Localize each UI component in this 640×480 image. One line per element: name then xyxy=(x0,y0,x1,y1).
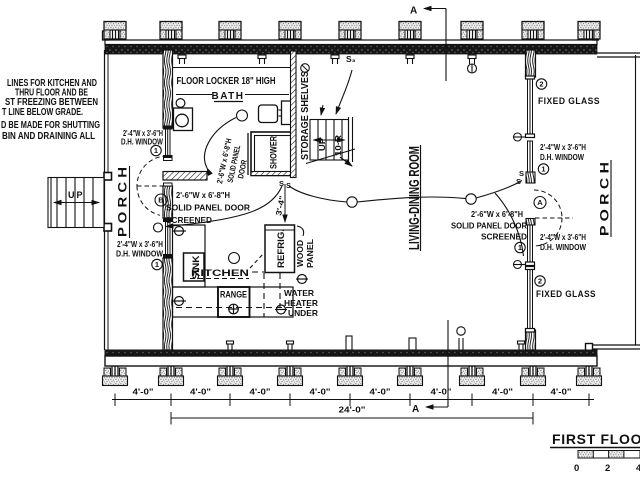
svg-text:SOLID PANEL DOOR: SOLID PANEL DOOR xyxy=(166,203,250,213)
svg-text:FLOOR LOCKER 18" HIGH: FLOOR LOCKER 18" HIGH xyxy=(177,76,276,87)
svg-text:2: 2 xyxy=(605,463,610,474)
svg-text:4: 4 xyxy=(636,463,640,474)
svg-text:D.H. WINDOW: D.H. WINDOW xyxy=(540,243,586,252)
svg-text:1: 1 xyxy=(154,146,158,155)
svg-text:A: A xyxy=(537,198,543,207)
svg-text:S: S xyxy=(516,177,521,186)
svg-text:A: A xyxy=(412,404,419,415)
svg-text:D.H. WINDOW: D.H. WINDOW xyxy=(540,153,584,162)
svg-text:10·R: 10·R xyxy=(333,135,343,156)
svg-text:SHOWER: SHOWER xyxy=(269,136,280,169)
svg-text:HEATER: HEATER xyxy=(284,298,318,308)
svg-text:2: 2 xyxy=(539,80,543,89)
svg-text:4'-0": 4'-0" xyxy=(190,387,211,397)
svg-text:P O R C H: P O R C H xyxy=(118,167,130,237)
svg-text:SCREENED: SCREENED xyxy=(166,215,212,225)
svg-text:S: S xyxy=(279,179,284,188)
svg-text:UP: UP xyxy=(68,190,85,200)
svg-text:REFRIG.: REFRIG. xyxy=(276,229,286,268)
svg-text:FIXED GLASS: FIXED GLASS xyxy=(538,96,600,106)
svg-text:4'-0": 4'-0" xyxy=(133,387,154,397)
svg-text:KITCHEN: KITCHEN xyxy=(191,268,249,279)
svg-text:2'-6"W x 6'-8"H: 2'-6"W x 6'-8"H xyxy=(471,209,523,219)
svg-text:1: 1 xyxy=(155,260,159,269)
svg-text:4'-0": 4'-0" xyxy=(370,387,391,397)
svg-text:4'-0": 4'-0" xyxy=(551,387,572,397)
svg-text:SOLID PANEL DOOR: SOLID PANEL DOOR xyxy=(451,221,527,231)
svg-text:FIRST FLOOR PLAN: FIRST FLOOR PLAN xyxy=(552,431,640,447)
svg-text:2'-6"W x 6'-8"H: 2'-6"W x 6'-8"H xyxy=(176,190,230,200)
svg-text:4'-0": 4'-0" xyxy=(250,387,271,397)
svg-text:STORAGE SHELVES: STORAGE SHELVES xyxy=(299,71,311,160)
svg-text:WOOD: WOOD xyxy=(295,240,305,267)
svg-text:FIXED GLASS: FIXED GLASS xyxy=(536,289,596,299)
svg-text:S₃: S₃ xyxy=(346,54,356,64)
svg-text:1: 1 xyxy=(541,165,545,174)
svg-text:BATH: BATH xyxy=(211,91,244,102)
svg-text:2'-4"W x 3'-6"H: 2'-4"W x 3'-6"H xyxy=(540,143,586,152)
svg-text:B: B xyxy=(158,196,164,205)
svg-text:PANEL: PANEL xyxy=(305,239,315,268)
svg-text:BIN AND DRAINING ALL: BIN AND DRAINING ALL xyxy=(2,130,95,142)
svg-text:2: 2 xyxy=(538,277,542,286)
svg-text:24'-0": 24'-0" xyxy=(339,405,366,415)
svg-text:T LINE BELOW GRADE.: T LINE BELOW GRADE. xyxy=(2,106,83,118)
svg-text:A: A xyxy=(410,6,417,17)
svg-text:S: S xyxy=(286,181,291,190)
svg-text:0: 0 xyxy=(574,463,579,474)
svg-text:4'-0": 4'-0" xyxy=(310,387,331,397)
svg-text:2'-4"W x 3'-6"H: 2'-4"W x 3'-6"H xyxy=(117,240,163,249)
svg-text:SCREENED: SCREENED xyxy=(481,232,527,242)
svg-text:4'-0": 4'-0" xyxy=(492,387,513,397)
svg-text:D.H. WINDOW: D.H. WINDOW xyxy=(116,250,163,259)
svg-text:WATER: WATER xyxy=(284,288,314,298)
svg-text:1: 1 xyxy=(518,243,522,252)
svg-text:UNDER: UNDER xyxy=(288,308,318,318)
svg-text:UP: UP xyxy=(317,138,327,151)
svg-text:RANGE: RANGE xyxy=(220,290,247,300)
svg-text:P O R C H: P O R C H xyxy=(600,162,612,236)
svg-text:2'-4"W x 3'-6"H: 2'-4"W x 3'-6"H xyxy=(540,233,586,242)
